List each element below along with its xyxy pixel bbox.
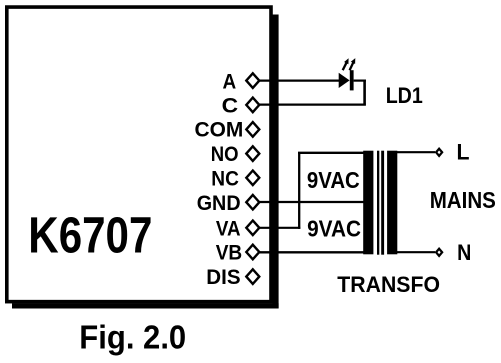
wire LD1 loop back to pin C (258, 103, 366, 105)
pin GND (246, 195, 259, 210)
svg-text:TRANSFO: TRANSFO (337, 272, 440, 297)
wire VA vertical riser (298, 153, 300, 229)
LED LD1 (339, 58, 356, 90)
svg-text:GND: GND (197, 192, 241, 215)
terminal N (435, 247, 444, 258)
wire pin A to LD1 anode (258, 79, 340, 81)
svg-text:MAINS: MAINS (430, 187, 496, 213)
svg-text:9VAC: 9VAC (307, 215, 361, 241)
svg-text:COM: COM (195, 119, 244, 142)
svg-text:LD1: LD1 (386, 83, 423, 108)
pin C (246, 98, 259, 113)
wire transformer to terminal L (396, 151, 435, 153)
pin VB (246, 245, 259, 260)
pin NC (246, 171, 259, 186)
pin DIS (246, 269, 259, 284)
pin NO (246, 146, 259, 161)
svg-text:N: N (457, 240, 471, 265)
wire LD1 cathode right stub (354, 79, 366, 81)
svg-text:L: L (457, 140, 470, 165)
svg-text:VA: VA (216, 217, 241, 240)
wire pin VB to transformer bottom tap (258, 251, 364, 253)
svg-text:9VAC: 9VAC (307, 167, 360, 193)
svg-text:Fig. 2.0: Fig. 2.0 (79, 319, 186, 356)
svg-text:K6707: K6707 (28, 207, 152, 264)
svg-text:NO: NO (211, 143, 239, 166)
wire pin GND to transformer mid tap (258, 201, 364, 203)
svg-text:C: C (222, 95, 239, 118)
module K6707 outline (7, 7, 279, 308)
wire transformer to terminal N (396, 251, 435, 253)
wire pin VA horizontal (258, 227, 300, 229)
pin A (246, 73, 259, 88)
pin COM (246, 122, 259, 137)
pin VA (246, 221, 259, 236)
wire VA to transformer top tap (298, 152, 364, 154)
svg-text:A: A (223, 70, 237, 93)
terminal L (435, 147, 444, 158)
transformer TRANSFO (363, 151, 397, 255)
wire LD1 loop vertical (363, 80, 366, 105)
svg-text:VB: VB (216, 242, 243, 265)
svg-text:NC: NC (211, 167, 239, 190)
svg-text:DIS: DIS (206, 266, 240, 289)
